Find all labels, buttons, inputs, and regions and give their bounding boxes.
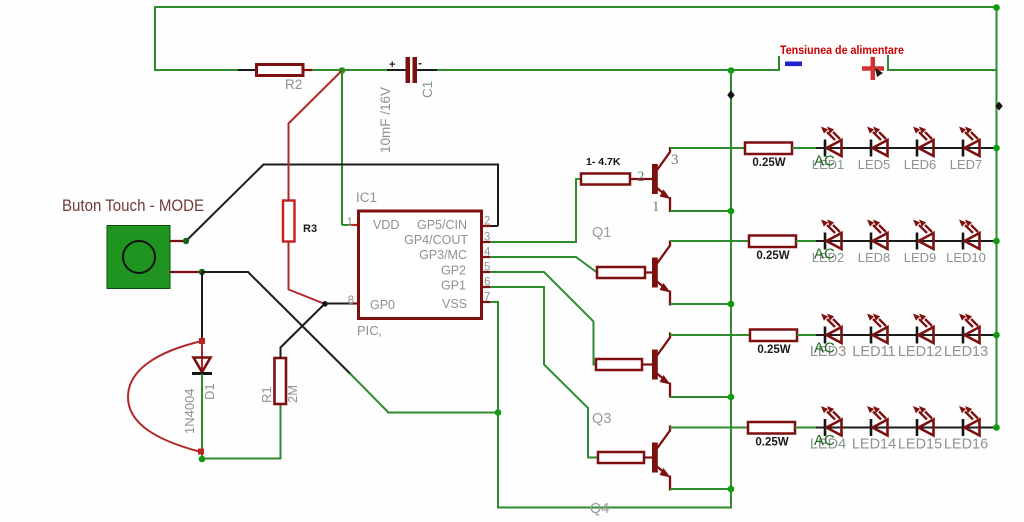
node junction top-right: [993, 4, 1000, 11]
node junction row 2 right rail: [993, 238, 1000, 245]
svg-text:1N4004: 1N4004: [182, 388, 197, 434]
wire R2 right lead: [303, 69, 313, 71]
svg-text:0.25W: 0.25W: [757, 344, 790, 356]
node junction emitter Q3: [728, 394, 735, 401]
pin 2 stub: [482, 225, 491, 227]
resistor R1: [275, 358, 287, 404]
capacitor C1: [406, 57, 411, 83]
svg-text:AC: AC: [814, 340, 835, 357]
diode D1: [194, 358, 211, 373]
wire Q2 emitter to rail: [670, 303, 732, 305]
LED LED8: [867, 220, 888, 250]
transistor Q4: [652, 443, 658, 473]
resistor 0.25W row 2: [749, 236, 796, 248]
pin 4 stub: [482, 256, 491, 258]
battery minus terminal stub: [778, 56, 780, 70]
node GP0 junction black: [322, 301, 328, 307]
wire top-left vertical: [154, 6, 156, 71]
svg-text:GP1: GP1: [441, 279, 466, 293]
transistor Q2: [652, 258, 658, 288]
wire row 4 LED series black: [816, 427, 997, 429]
node junction row 4 right rail: [993, 424, 1000, 431]
LED LED2: [821, 220, 842, 250]
LED LED4: [821, 406, 842, 436]
node red arc end: [198, 449, 204, 455]
battery plus symbol: [862, 66, 884, 71]
LED LED16: [959, 406, 980, 436]
svg-text:LED9: LED9: [904, 250, 937, 265]
wire left horizontal to R2: [154, 69, 240, 71]
LED LED13: [959, 314, 980, 344]
LED LED3: [821, 314, 842, 344]
wire anode red: [201, 340, 203, 372]
wire button to diode black: [201, 272, 203, 341]
touch button pad: [107, 226, 170, 289]
wire row 1 resistor to LEDs: [792, 147, 818, 149]
junction diamond right rail: [995, 102, 1003, 111]
svg-text:6: 6: [484, 277, 490, 289]
svg-text:+: +: [389, 59, 395, 71]
svg-text:LED16: LED16: [944, 437, 988, 453]
svg-text:8: 8: [348, 295, 354, 307]
svg-text:GP5/CIN: GP5/CIN: [417, 218, 467, 232]
svg-text:GP3/MC: GP3/MC: [419, 248, 467, 262]
wire R3 diagonal to GP0 node: [289, 290, 326, 305]
LED LED15: [913, 406, 934, 436]
svg-text:LED13: LED13: [944, 344, 988, 360]
svg-text:0.25W: 0.25W: [755, 437, 788, 449]
wire left rail vertical: [730, 70, 732, 508]
node junction diode bottom: [199, 456, 206, 463]
battery minus symbol: [785, 62, 802, 67]
wire pin2 vertical black: [497, 165, 499, 227]
resistor base Q1 4.7K: [630, 178, 653, 180]
svg-text:LED7: LED7: [950, 157, 983, 172]
svg-text:LED5: LED5: [858, 157, 891, 172]
wire battery plus to right rail: [887, 69, 997, 71]
svg-text:VSS: VSS: [442, 297, 467, 311]
svg-text:4: 4: [484, 247, 491, 259]
wire right rail vertical: [996, 7, 998, 428]
svg-text:5: 5: [484, 262, 490, 274]
svg-text:LED12: LED12: [898, 344, 942, 360]
wire top supply horizontal: [155, 6, 996, 8]
svg-text:VDD: VDD: [373, 218, 399, 232]
svg-text:Buton Touch - MODE: Buton Touch - MODE: [62, 197, 204, 215]
wire Q4 collector to row: [670, 427, 749, 429]
wire black lead left of R2: [238, 69, 257, 71]
wire pin2 horizontal black: [263, 164, 499, 166]
wire lower node horizontal black: [202, 271, 249, 273]
pin 1 stub: [350, 224, 359, 226]
svg-text:LED6: LED6: [904, 157, 937, 172]
pin 2 stub: [483, 225, 498, 227]
wire horizontal to pin7 net: [387, 412, 499, 414]
resistor 0.25W row 3: [750, 330, 797, 342]
svg-text:LED14: LED14: [852, 437, 896, 453]
resistor base Q4 4.7K: [644, 456, 653, 458]
wire VDD to pin1: [342, 224, 352, 226]
button lower pin stub: [170, 271, 202, 273]
wire bottom green to R1: [202, 458, 281, 460]
resistor 0.25W row 1: [745, 143, 792, 155]
svg-text:Q1: Q1: [592, 225, 611, 241]
svg-text:Q3: Q3: [592, 411, 611, 427]
wire R2 to node: [312, 69, 343, 71]
svg-text:2M: 2M: [285, 385, 300, 403]
node junction emitter Q4: [728, 486, 735, 493]
svg-text:7: 7: [484, 292, 490, 304]
wire Q4 emitter to rail: [670, 488, 732, 490]
LED LED7: [959, 127, 980, 157]
wire Q3 collector to row: [670, 334, 751, 336]
node junction left rail top: [728, 67, 735, 74]
svg-text:AC: AC: [814, 246, 835, 263]
LED LED9: [913, 220, 934, 250]
svg-text:LED11: LED11: [852, 344, 895, 360]
svg-text:C1: C1: [420, 81, 435, 98]
svg-text:0.25W: 0.25W: [752, 157, 785, 169]
node A touch upper: [183, 238, 189, 244]
svg-text:3: 3: [484, 232, 490, 244]
svg-text:Tensiunea de alimentare: Tensiunea de alimentare: [780, 43, 904, 57]
node junction emitter Q2: [728, 301, 735, 308]
LED LED10: [959, 220, 980, 250]
svg-text:AC: AC: [814, 153, 835, 170]
wire R3 bottom lead red: [288, 241, 290, 290]
wire row 1 LED series black: [816, 147, 997, 149]
LED LED14: [867, 406, 888, 436]
svg-text:PIC‚: PIC‚: [357, 323, 382, 338]
wire row 2 resistor to LEDs: [796, 240, 818, 242]
resistor R3: [283, 201, 295, 242]
LED LED12: [913, 314, 934, 344]
resistor base Q3 4.7K: [642, 363, 653, 365]
svg-text:LED10: LED10: [946, 250, 986, 265]
wire GP0 stub black: [325, 303, 352, 305]
svg-text:R1: R1: [259, 386, 274, 403]
svg-text:GP2: GP2: [441, 264, 466, 278]
wire bottom return horizontal: [497, 507, 732, 509]
wire node to C1: [342, 69, 388, 71]
resistor R2: [257, 65, 304, 76]
wire diagonal green continuation: [350, 374, 388, 413]
node B touch lower: [199, 269, 205, 275]
pin 3 stub: [482, 241, 491, 243]
svg-text:GP0: GP0: [370, 298, 395, 312]
wire R1 top lead black: [280, 347, 282, 358]
LED LED11: [867, 314, 888, 344]
svg-text:2: 2: [637, 169, 645, 185]
svg-text:D1: D1: [202, 383, 217, 400]
svg-text:10mF /16V: 10mF /16V: [378, 87, 393, 153]
pin 5 stub: [482, 271, 491, 273]
wire C1 right lead black: [417, 69, 438, 71]
LED LED1: [821, 127, 842, 157]
cursor artifact: [875, 68, 883, 77]
wire VDD vertical from node: [341, 70, 343, 225]
junction diamond left rail: [727, 91, 735, 100]
wire diagonal R1 to GP0 node: [280, 304, 325, 349]
LED LED5: [867, 127, 888, 157]
wire R3 top lead red: [288, 123, 290, 201]
wire diagonal to touch node: [186, 164, 264, 241]
transistor Q3: [652, 350, 658, 380]
wire red node to R3 diagonal: [289, 71, 343, 124]
resistor 0.25W row 4: [748, 422, 795, 434]
svg-text:1- 4.7K: 1- 4.7K: [586, 156, 621, 168]
svg-text:3: 3: [671, 152, 679, 168]
pin 6 stub: [482, 286, 491, 288]
node junction R2/C1/VDD: [339, 67, 346, 74]
LED LED6: [913, 127, 934, 157]
svg-text:1: 1: [347, 217, 353, 229]
wire long diagonal black to GP0 net: [248, 272, 351, 375]
svg-text:2: 2: [484, 216, 490, 228]
wire Q3 emitter to rail: [670, 396, 732, 398]
battery plus terminal stub: [887, 55, 889, 71]
node junction emitter Q1: [728, 208, 735, 215]
svg-text:LED15: LED15: [898, 437, 942, 453]
pin 8 stub: [351, 302, 359, 304]
node junction pin7 net: [495, 409, 502, 416]
wire pin3 net to Q1 base: [490, 179, 582, 242]
button upper pin stub: [170, 240, 187, 242]
svg-text:Q4: Q4: [590, 501, 609, 517]
resistor base Q2 4.7K: [645, 271, 653, 273]
wire C1 to battery minus: [437, 69, 780, 71]
svg-text:GP4/COUT: GP4/COUT: [404, 233, 468, 247]
wire row 3 LED series black: [816, 334, 997, 336]
svg-text:1: 1: [652, 199, 660, 215]
wire pin7 net down: [490, 302, 498, 508]
node junction row 3 right rail: [993, 332, 1000, 339]
svg-text:0.25W: 0.25W: [756, 250, 789, 262]
wire cathode green down: [201, 374, 203, 459]
svg-text:IC1: IC1: [356, 190, 377, 205]
wire row 2 LED series black: [816, 240, 997, 242]
node junction row 1 right rail: [993, 145, 1000, 152]
svg-text:R2: R2: [285, 77, 302, 92]
pin 7 stub: [482, 301, 491, 303]
wire row 4 resistor to LEDs: [795, 427, 818, 429]
wire pin4 net to Q2 base: [490, 257, 597, 273]
op-amp IC1 body: [359, 211, 482, 319]
node red diode anode: [199, 338, 205, 344]
svg-text:AC: AC: [814, 432, 835, 449]
wire pin6 net to Q4 base: [490, 287, 598, 458]
wire Q1 collector to row: [670, 147, 746, 149]
wire Q1 emitter to rail: [670, 210, 732, 212]
wire C1 left lead black: [387, 69, 406, 71]
svg-text:-: -: [418, 56, 422, 70]
transistor Q1: [652, 164, 658, 194]
touch button contact circle: [123, 241, 155, 273]
svg-text:LED8: LED8: [858, 250, 891, 265]
wire row 3 resistor to LEDs: [797, 334, 818, 336]
wire pin5 net to Q3 base: [490, 272, 596, 365]
wire Q2 collector to row: [670, 240, 750, 242]
wire red arc bypass: [128, 341, 202, 452]
diode cathode bar: [192, 372, 212, 375]
wire R1 bottom lead green: [280, 404, 282, 459]
svg-text:R3: R3: [303, 223, 317, 235]
